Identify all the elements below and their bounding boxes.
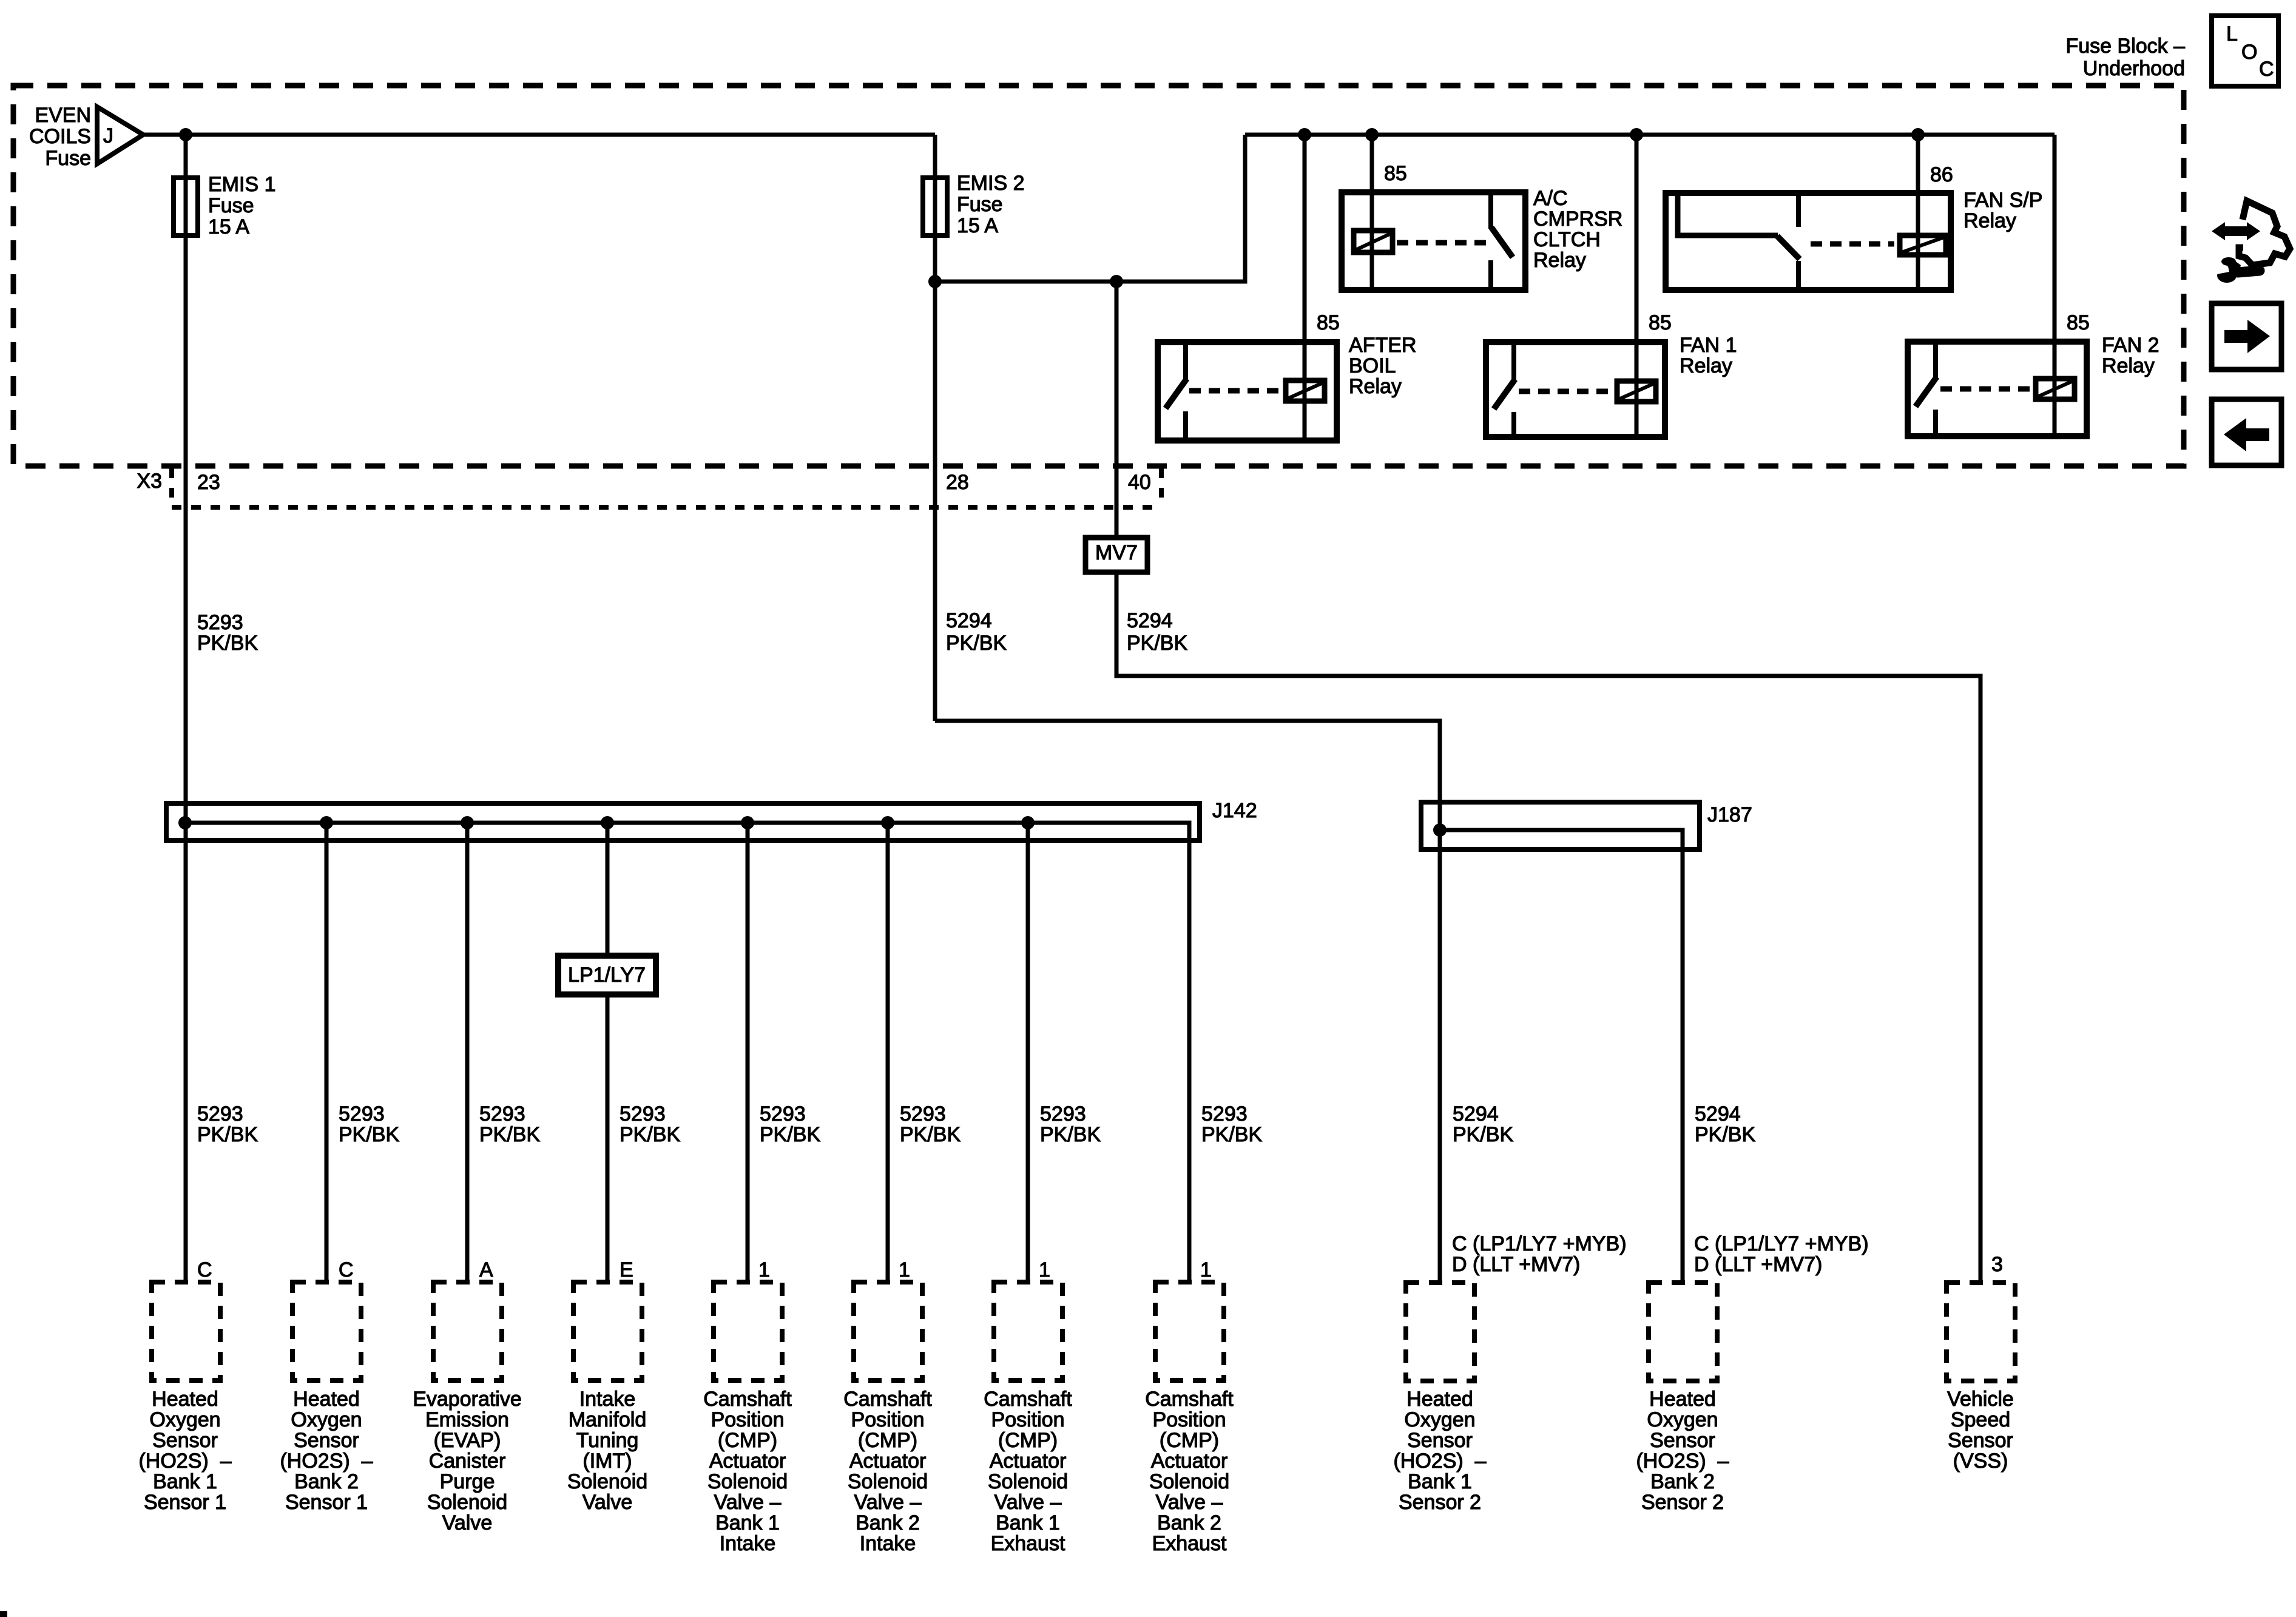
box HO2S bank1 sensor2 — [1406, 1283, 1474, 1381]
svg-text:Sensor 2: Sensor 2 — [1641, 1491, 1724, 1514]
svg-text:Fuse: Fuse — [45, 147, 91, 170]
fuse block underhood dashed border — [13, 86, 2184, 466]
svg-text:Solenoid: Solenoid — [707, 1470, 788, 1493]
svg-text:Position: Position — [851, 1408, 925, 1431]
svg-text:AFTER: AFTER — [1349, 334, 1416, 357]
svg-text:15 A: 15 A — [957, 214, 998, 237]
svg-text:Sensor: Sensor — [1650, 1429, 1715, 1452]
svg-text:1: 1 — [758, 1258, 770, 1281]
svg-text:Fuse Block –: Fuse Block – — [2065, 35, 2185, 58]
svg-text:A: A — [479, 1258, 493, 1281]
label wire 5294 PK/BK upper left — [946, 609, 1007, 655]
splice J187 — [1421, 802, 1752, 1283]
svg-text:Oxygen: Oxygen — [291, 1408, 362, 1431]
svg-text:J187: J187 — [1707, 803, 1752, 826]
svg-text:C (LP1/LY7 +MYB): C (LP1/LY7 +MYB) — [1452, 1232, 1627, 1255]
svg-text:A/C: A/C — [1533, 187, 1568, 210]
svg-text:Tuning: Tuning — [576, 1429, 639, 1452]
label HO2S bank1 sensor1 — [138, 1388, 231, 1514]
relay FAN S/P — [1666, 163, 2042, 290]
svg-text:Sensor: Sensor — [1407, 1429, 1473, 1452]
svg-text:1: 1 — [1039, 1258, 1050, 1281]
svg-text:Relay: Relay — [1533, 249, 1586, 272]
svg-text:Relay: Relay — [2102, 354, 2155, 377]
box CMP bank2 intake — [854, 1282, 922, 1380]
svg-text:Solenoid: Solenoid — [988, 1470, 1068, 1493]
wire J142 drop 3 — [465, 823, 470, 1282]
wire top feed — [143, 133, 935, 137]
svg-text:Oxygen: Oxygen — [1647, 1408, 1718, 1431]
svg-text:Purge: Purge — [440, 1470, 495, 1493]
svg-text:Intake: Intake — [579, 1388, 636, 1411]
label HO2S bank1 sensor2 — [1393, 1388, 1486, 1514]
wire J142 drop 6 — [886, 823, 890, 1282]
svg-text:Fuse: Fuse — [208, 194, 254, 217]
svg-text:85: 85 — [2067, 311, 2090, 334]
svg-text:Position: Position — [1153, 1408, 1226, 1431]
svg-text:CMPRSR: CMPRSR — [1533, 208, 1622, 231]
wire MV7 to VSS — [1116, 572, 1980, 1282]
svg-text:(CMP): (CMP) — [998, 1429, 1058, 1452]
fuse J EVEN COILS triangle — [29, 104, 143, 170]
svg-text:Solenoid: Solenoid — [848, 1470, 928, 1493]
label CMP bank1 intake — [703, 1388, 792, 1555]
wire pin 28 run to J187 — [935, 721, 1440, 1282]
label wire 5293 PK/BK upper — [197, 611, 258, 655]
wire coil feed FAN 1 pin 85 — [1635, 135, 1639, 439]
pin labels HO2S bank2 sensor2 — [1694, 1232, 1869, 1276]
wire J142 drop 4 — [606, 823, 610, 1282]
node bus junction FAN S/P — [1911, 128, 1925, 141]
svg-text:Solenoid: Solenoid — [567, 1470, 647, 1493]
icon arrow right box — [2212, 303, 2281, 370]
svg-text:85: 85 — [1317, 311, 1340, 334]
svg-text:23: 23 — [197, 471, 220, 494]
svg-text:Bank 2: Bank 2 — [856, 1511, 920, 1534]
svg-text:Bank 2: Bank 2 — [1157, 1511, 1221, 1534]
svg-text:Sensor: Sensor — [1948, 1429, 2013, 1452]
svg-text:(CMP): (CMP) — [718, 1429, 777, 1452]
svg-text:PK/BK: PK/BK — [1695, 1123, 1755, 1146]
wire coil feed A/C pin 85 — [1370, 135, 1374, 288]
svg-text:Sensor 2: Sensor 2 — [1399, 1491, 1481, 1514]
svg-text:EVEN: EVEN — [35, 104, 91, 127]
box MV7 — [1086, 538, 1147, 572]
svg-text:PK/BK: PK/BK — [760, 1123, 820, 1146]
svg-text:Camshaft: Camshaft — [984, 1388, 1072, 1411]
svg-text:(HO2S) –: (HO2S) – — [1636, 1450, 1729, 1473]
svg-text:(HO2S) –: (HO2S) – — [280, 1450, 373, 1473]
svg-text:5294: 5294 — [1127, 609, 1173, 632]
svg-text:LP1/LY7: LP1/LY7 — [568, 964, 646, 987]
svg-text:Exhaust: Exhaust — [1152, 1532, 1227, 1555]
box LP1/LY7 — [558, 956, 656, 994]
svg-text:(IMT): (IMT) — [582, 1450, 632, 1473]
svg-text:O: O — [2241, 41, 2257, 64]
svg-text:(VSS): (VSS) — [1953, 1450, 2008, 1473]
labels 5293 PK/BK lower row — [197, 1102, 258, 1146]
svg-text:40: 40 — [1128, 471, 1151, 494]
label CMP bank1 exhaust — [984, 1388, 1072, 1555]
svg-text:Valve –: Valve – — [994, 1491, 1062, 1514]
svg-text:PK/BK: PK/BK — [1127, 632, 1187, 655]
svg-text:PK/BK: PK/BK — [479, 1123, 540, 1146]
svg-text:5293: 5293 — [1040, 1102, 1086, 1126]
svg-text:EMIS 2: EMIS 2 — [957, 172, 1024, 195]
node junction at EMIS1 — [179, 128, 192, 141]
svg-text:D (LLT +MV7): D (LLT +MV7) — [1694, 1253, 1822, 1276]
relay AFTER BOIL — [1158, 311, 1416, 441]
svg-text:L: L — [2226, 22, 2238, 46]
svg-text:Heated: Heated — [293, 1388, 360, 1411]
svg-text:X3: X3 — [137, 470, 162, 493]
pin labels HO2S bank1 sensor2 — [1452, 1232, 1627, 1276]
box CMP bank2 exhaust — [1155, 1282, 1224, 1380]
svg-text:C (LP1/LY7 +MYB): C (LP1/LY7 +MYB) — [1694, 1232, 1869, 1255]
svg-text:Bank 1: Bank 1 — [715, 1511, 780, 1534]
wire coil feed AFTER BOIL pin 85 — [1303, 135, 1307, 441]
box EVAP solenoid — [433, 1282, 502, 1380]
svg-text:85: 85 — [1649, 311, 1672, 334]
period bottom left — [0, 1611, 7, 1617]
svg-text:PK/BK: PK/BK — [339, 1123, 399, 1146]
svg-text:Actuator: Actuator — [990, 1450, 1067, 1473]
svg-text:Actuator: Actuator — [709, 1450, 786, 1473]
svg-text:5293: 5293 — [1201, 1102, 1248, 1126]
svg-text:J142: J142 — [1212, 799, 1257, 822]
svg-text:(CMP): (CMP) — [1160, 1429, 1219, 1452]
wire EMIS2 drop — [933, 135, 937, 721]
svg-text:Valve –: Valve – — [854, 1491, 922, 1514]
wire coil feed FAN 2 pin 85 — [2053, 135, 2057, 439]
box HO2S bank1 sensor1 — [152, 1282, 220, 1380]
svg-text:Solenoid: Solenoid — [1149, 1470, 1229, 1493]
svg-text:86: 86 — [1930, 163, 1953, 186]
svg-text:Bank 2: Bank 2 — [294, 1470, 359, 1493]
svg-text:Heated: Heated — [152, 1388, 218, 1411]
svg-text:Sensor: Sensor — [152, 1429, 218, 1452]
svg-text:FAN 2: FAN 2 — [2102, 334, 2159, 357]
wire J142 drop 7 — [1026, 823, 1030, 1282]
wire EMIS1 drop — [184, 135, 188, 1282]
svg-text:Valve –: Valve – — [714, 1491, 782, 1514]
wire J142 drop 5 — [746, 823, 750, 1282]
box HO2S bank2 sensor2 — [1649, 1283, 1717, 1381]
svg-text:5293: 5293 — [479, 1102, 525, 1126]
wire branch EMIS2 to relay bus riser — [935, 135, 1245, 282]
label CMP bank2 intake — [843, 1388, 932, 1555]
svg-text:Valve: Valve — [442, 1511, 493, 1534]
svg-text:BOIL: BOIL — [1349, 354, 1396, 377]
node bus junction FAN 1 — [1630, 128, 1643, 141]
connector X3 dotted line — [137, 468, 1161, 507]
svg-text:Valve: Valve — [582, 1491, 633, 1514]
labels 5294 PK/BK lower row — [1453, 1102, 1513, 1146]
svg-text:5293: 5293 — [900, 1102, 946, 1126]
svg-text:5293: 5293 — [339, 1102, 385, 1126]
svg-text:Actuator: Actuator — [849, 1450, 927, 1473]
svg-text:15 A: 15 A — [208, 215, 249, 238]
svg-text:Oxygen: Oxygen — [149, 1408, 220, 1431]
svg-text:Camshaft: Camshaft — [703, 1388, 792, 1411]
svg-text:Bank 1: Bank 1 — [1408, 1470, 1472, 1493]
svg-text:(EVAP): (EVAP) — [434, 1429, 501, 1452]
svg-text:Actuator: Actuator — [1151, 1450, 1228, 1473]
svg-text:PK/BK: PK/BK — [900, 1123, 961, 1146]
svg-text:5293: 5293 — [197, 611, 243, 634]
svg-text:PK/BK: PK/BK — [197, 1123, 258, 1146]
label HO2S bank2 sensor1 — [280, 1388, 373, 1514]
relay FAN 1 — [1486, 311, 1737, 437]
svg-text:CLTCH: CLTCH — [1533, 228, 1601, 251]
label wire 5294 PK/BK upper right — [1127, 609, 1187, 655]
label IMT — [567, 1388, 647, 1514]
svg-text:5294: 5294 — [1695, 1102, 1741, 1126]
svg-text:PK/BK: PK/BK — [1453, 1123, 1513, 1146]
svg-text:Sensor: Sensor — [294, 1429, 359, 1452]
svg-text:Vehicle: Vehicle — [1947, 1388, 2014, 1411]
box HO2S bank2 sensor1 — [292, 1282, 361, 1380]
svg-text:Emission: Emission — [425, 1408, 509, 1431]
svg-text:PK/BK: PK/BK — [620, 1123, 680, 1146]
box CMP bank1 intake — [714, 1282, 782, 1380]
svg-text:PK/BK: PK/BK — [946, 632, 1007, 655]
svg-text:5293: 5293 — [197, 1102, 243, 1126]
svg-text:Exhaust: Exhaust — [991, 1532, 1065, 1555]
svg-text:EMIS 1: EMIS 1 — [208, 173, 275, 196]
svg-text:Speed: Speed — [1951, 1408, 2010, 1431]
svg-text:1: 1 — [1200, 1258, 1212, 1281]
svg-text:Camshaft: Camshaft — [1145, 1388, 1234, 1411]
svg-text:Heated: Heated — [1649, 1388, 1716, 1411]
fuse EMIS 2 15A — [923, 172, 1024, 237]
svg-text:COILS: COILS — [29, 125, 91, 148]
wire pin 40 drop to MV7 — [1115, 282, 1119, 538]
svg-text:Intake: Intake — [860, 1532, 916, 1555]
svg-text:Evaporative: Evaporative — [413, 1388, 522, 1411]
svg-text:D (LLT +MV7): D (LLT +MV7) — [1452, 1253, 1580, 1276]
label VSS — [1947, 1388, 2014, 1473]
icon arrow left box — [2212, 399, 2281, 465]
label HO2S bank2 sensor2 — [1636, 1388, 1729, 1514]
svg-text:Bank 1: Bank 1 — [996, 1511, 1060, 1534]
svg-text:3: 3 — [1991, 1253, 2003, 1276]
svg-text:Oxygen: Oxygen — [1404, 1408, 1475, 1431]
svg-text:Intake: Intake — [720, 1532, 776, 1555]
svg-text:1: 1 — [899, 1258, 910, 1281]
svg-text:5293: 5293 — [620, 1102, 666, 1126]
svg-text:PK/BK: PK/BK — [197, 632, 258, 655]
wire J142 drop 2 — [325, 823, 329, 1282]
svg-text:C: C — [339, 1258, 354, 1281]
svg-text:Camshaft: Camshaft — [843, 1388, 932, 1411]
svg-text:PK/BK: PK/BK — [1040, 1123, 1101, 1146]
svg-text:Canister: Canister — [429, 1450, 506, 1473]
relay A/C CMPRSR CLTCH — [1342, 162, 1622, 290]
node junction pin40 branch — [1110, 275, 1123, 288]
box VSS — [1947, 1283, 2015, 1381]
svg-text:Underhood: Underhood — [2083, 57, 2185, 80]
icon car with double arrow and wrench — [2212, 201, 2290, 283]
node bus junction A/C — [1365, 128, 1379, 141]
svg-text:Relay: Relay — [1963, 209, 2016, 232]
svg-text:J: J — [103, 124, 113, 147]
svg-text:(HO2S) –: (HO2S) – — [1393, 1450, 1486, 1473]
svg-text:C: C — [2259, 58, 2274, 81]
wire coil feed FAN S/P pin 86 — [1916, 135, 1920, 292]
svg-text:5294: 5294 — [946, 609, 992, 632]
svg-text:(CMP): (CMP) — [858, 1429, 917, 1452]
label EVAP — [413, 1388, 522, 1534]
svg-text:FAN S/P: FAN S/P — [1963, 189, 2042, 212]
svg-text:C: C — [197, 1258, 212, 1281]
svg-text:Position: Position — [711, 1408, 785, 1431]
svg-text:Fuse: Fuse — [957, 193, 1003, 216]
svg-text:(HO2S) –: (HO2S) – — [138, 1450, 231, 1473]
svg-text:MV7: MV7 — [1095, 541, 1138, 564]
svg-text:Relay: Relay — [1680, 354, 1732, 377]
svg-text:Valve –: Valve – — [1156, 1491, 1223, 1514]
svg-text:Sensor 1: Sensor 1 — [144, 1491, 226, 1514]
relay FAN 2 — [1908, 311, 2159, 436]
svg-text:Bank 1: Bank 1 — [153, 1470, 217, 1493]
svg-text:Solenoid: Solenoid — [427, 1491, 507, 1514]
svg-text:5294: 5294 — [1453, 1102, 1499, 1126]
fuse EMIS 1 15A — [174, 173, 275, 238]
svg-text:FAN 1: FAN 1 — [1680, 334, 1737, 357]
svg-text:Sensor 1: Sensor 1 — [285, 1491, 368, 1514]
svg-text:E: E — [620, 1258, 633, 1281]
label CMP bank2 exhaust — [1145, 1388, 1234, 1555]
svg-text:Bank 2: Bank 2 — [1650, 1470, 1715, 1493]
svg-text:Heated: Heated — [1406, 1388, 1473, 1411]
wire relay bus — [1245, 133, 2055, 137]
icon LOC box — [2212, 16, 2278, 86]
svg-text:Relay: Relay — [1349, 375, 1402, 398]
node bus junction AFTER BOIL — [1298, 128, 1311, 141]
svg-text:PK/BK: PK/BK — [1201, 1123, 1262, 1146]
box IMT solenoid — [573, 1282, 642, 1380]
svg-text:Position: Position — [991, 1408, 1065, 1431]
svg-text:85: 85 — [1384, 162, 1407, 185]
svg-text:Manifold: Manifold — [569, 1408, 647, 1431]
node junction EMIS2 branch — [928, 275, 942, 288]
box CMP bank1 exhaust — [994, 1282, 1062, 1380]
splice J142 — [166, 799, 1257, 1282]
svg-text:28: 28 — [946, 471, 969, 494]
svg-text:5293: 5293 — [760, 1102, 806, 1126]
